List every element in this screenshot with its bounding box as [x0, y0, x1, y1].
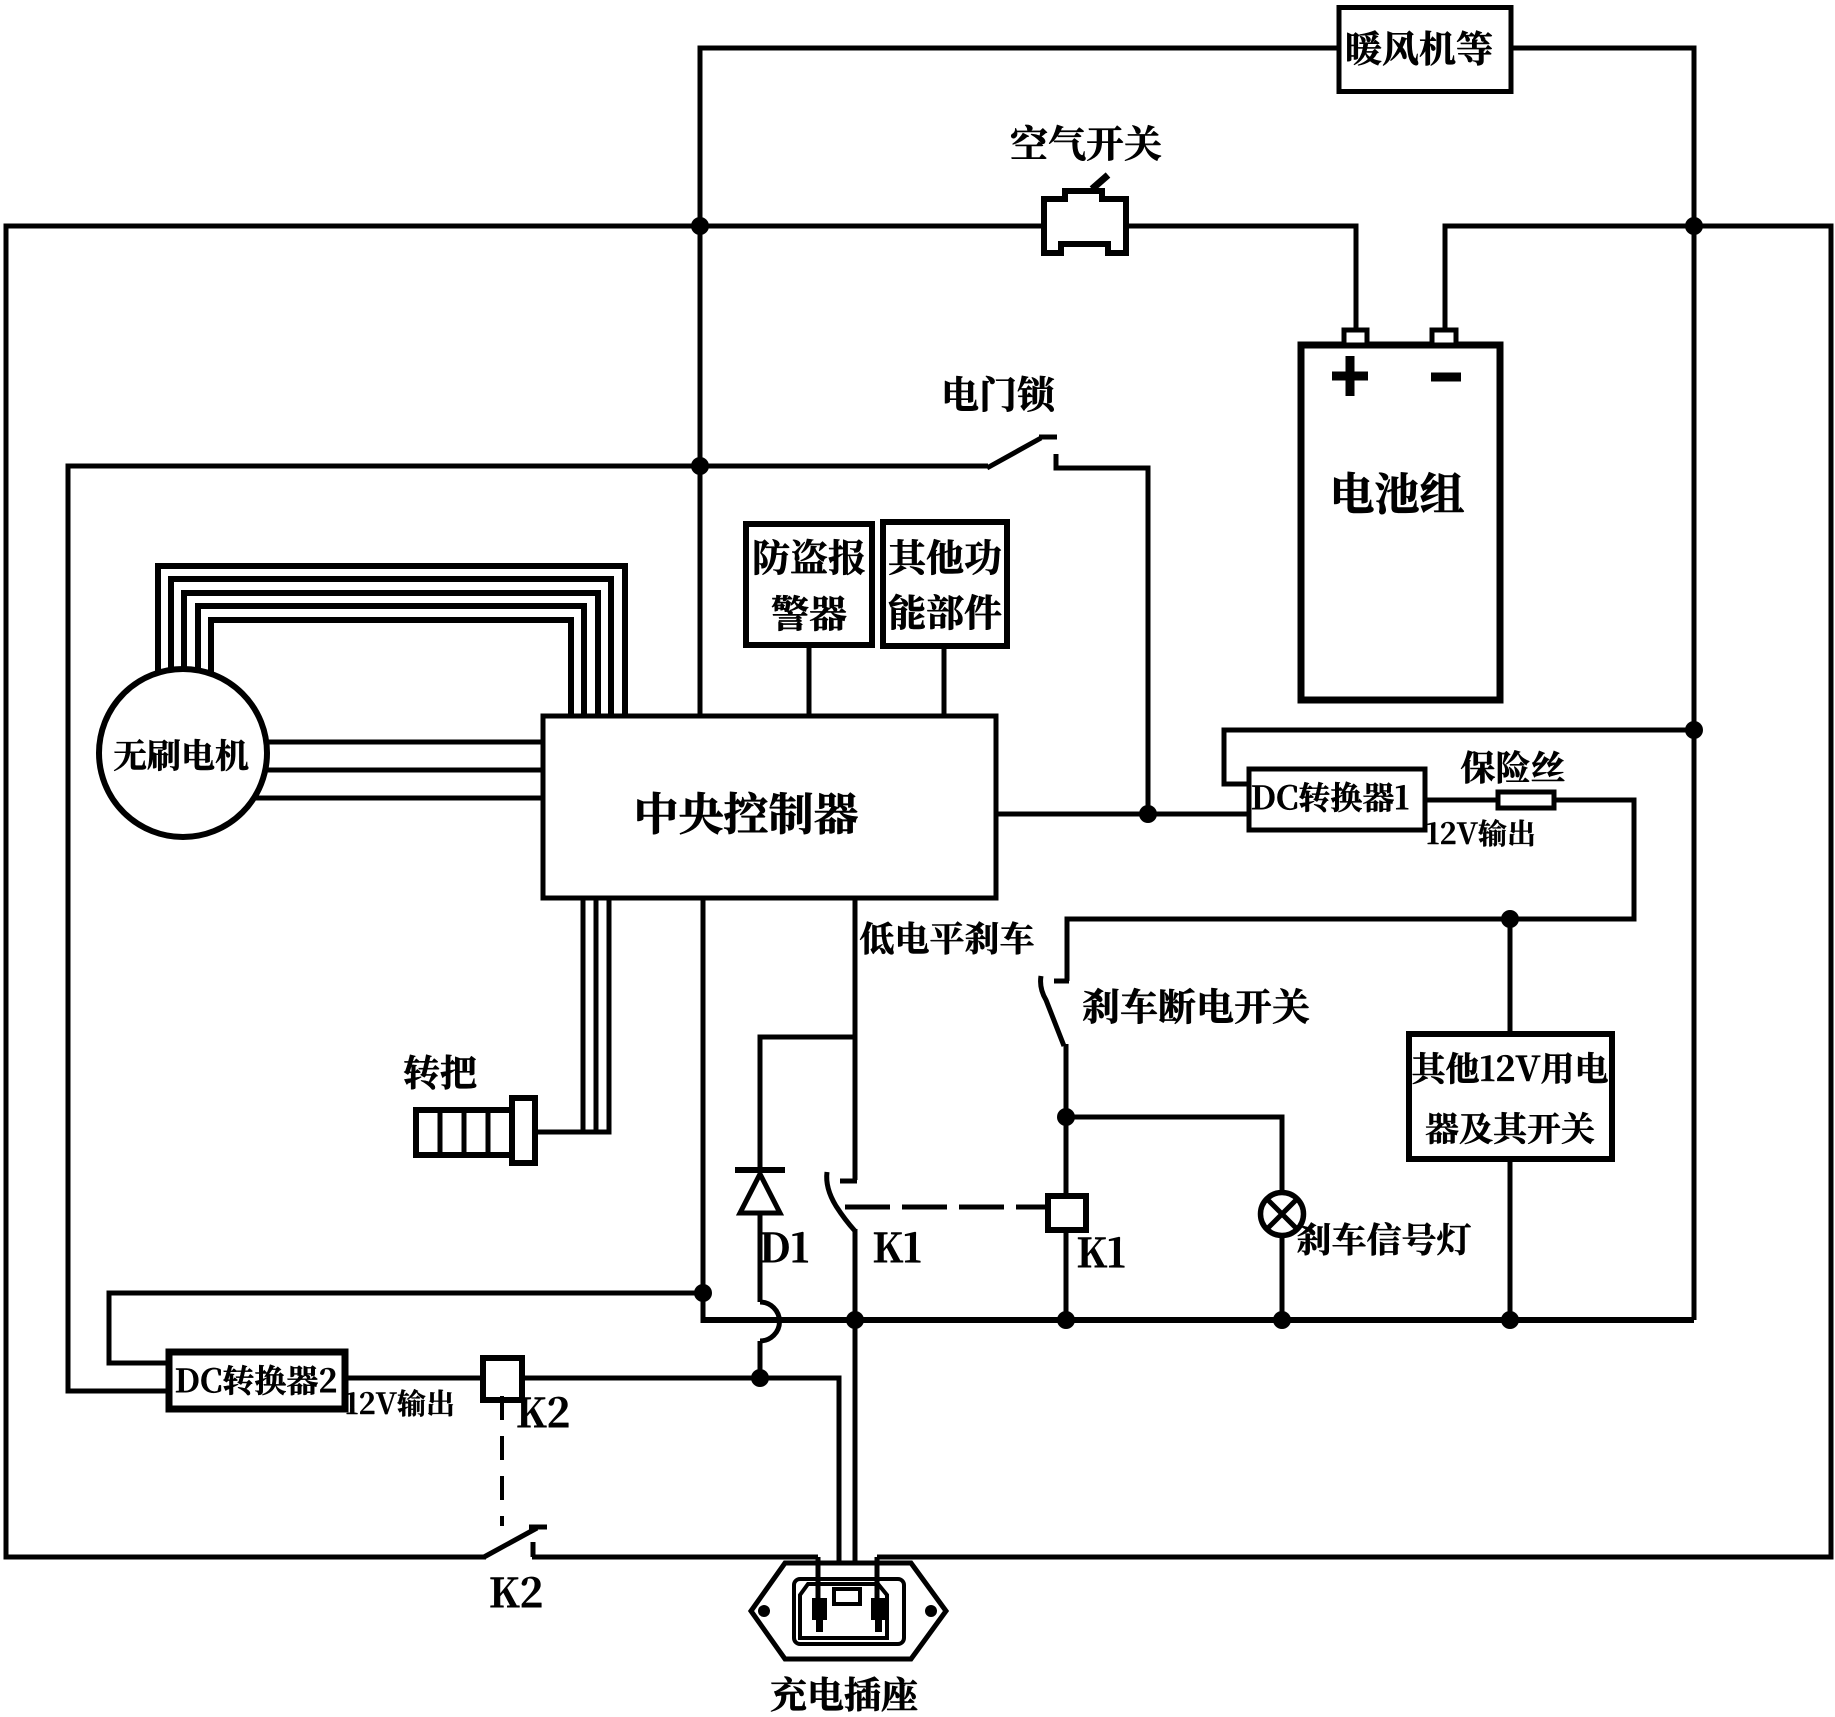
switch K1 fixed contact tick [840, 1179, 857, 1184]
wire D1 node to socket drop [760, 1376, 842, 1381]
wire vertical right bus x=1694 [1692, 46, 1697, 1321]
wire lamp branch horizontal y=1117 [1066, 1115, 1285, 1120]
node junction x=855 y=1320 [846, 1311, 864, 1329]
component throttle 转把 [416, 1110, 512, 1155]
air switch breaker symbol [1044, 191, 1126, 253]
battery plus sign [1332, 372, 1368, 381]
switch K1 blade [827, 1172, 855, 1231]
wire lock rail y=466 [68, 464, 988, 469]
battery plus terminal [1344, 330, 1367, 345]
wire K1 coil to line A [1064, 1230, 1069, 1320]
node junction x=703 y=1293 [694, 1284, 712, 1302]
node junction x=1066 y=1117 [1057, 1108, 1075, 1126]
wire motor 3 phase leads [205, 740, 545, 745]
node junction x=1148 y=814 [1139, 805, 1157, 823]
wire other-12V box to line A [1508, 1159, 1513, 1320]
switch K1 wire from controller [853, 898, 858, 1180]
wire alarm box to controller [807, 645, 812, 716]
label 电门锁 (key lock switch) [945, 376, 1054, 412]
component anti-theft alarm box 防盗报警器 [746, 524, 872, 645]
wire hop over line A [760, 1302, 780, 1341]
component box heater 暖风机等 [1339, 8, 1511, 92]
wire lock switch output x=1148 down to controller output line [1146, 466, 1151, 815]
label 充电插座 [771, 1677, 917, 1712]
wire bottom bus line A y=1320 [701, 1317, 1695, 1323]
wire K1 line to socket [853, 1320, 858, 1597]
wire K2 coil to D1 node [521, 1376, 760, 1381]
wire outer right border x=1831 [1829, 224, 1834, 1560]
component DC converter 1 box DC转换器1 [1249, 769, 1425, 830]
component other function parts box 其他功能部件 [883, 522, 1007, 646]
label 空气开关 (air switch) [1011, 125, 1161, 161]
node junction x=1510 y=919 [1501, 910, 1519, 928]
wire main positive rail y=226 left segment [4, 224, 1048, 229]
component brake signal lamp 刹车信号灯 [1261, 1193, 1304, 1236]
label 12V输出 right [1428, 819, 1534, 847]
wire bottom border y=1557 K2-to-socket [532, 1555, 818, 1560]
switch brake cutoff fixed contact [1065, 917, 1070, 982]
component DC converter 2 box DC转换器2 [169, 1352, 345, 1409]
wire controller output y=816 [996, 812, 1249, 817]
wire vertical x=68 (lock rail to DC converter 2) [66, 464, 71, 1392]
component other 12V devices box 其他12V用电器及其开关 [1409, 1034, 1612, 1159]
wire bottom border y=1557 left of K2 switch [4, 1555, 487, 1560]
wire K1 blade to line A [853, 1229, 858, 1320]
node junction x=1694 y=226 [1685, 217, 1703, 235]
wire motor hall/phase bundle (5 loops) [155, 566, 161, 700]
wire dashed link K2 coil to K2 switch [500, 1396, 504, 1526]
component brushless motor circle 无刷电机 [99, 669, 267, 837]
wire vertical bus x=700 (from top rail to controller) [698, 46, 703, 719]
wire main positive rail y=226 middle segment [1123, 224, 1356, 229]
wire function box to controller [942, 646, 947, 716]
node junction x=1066 y=1320 [1057, 1311, 1075, 1329]
switch 电门锁 blade and contacts [987, 438, 1041, 468]
node junction x=700 y=466 [691, 457, 709, 475]
component fuse symbol [1498, 792, 1554, 808]
node junction x=1510 y=1320 [1501, 1311, 1519, 1329]
switch brake cutoff blade [1041, 976, 1064, 1046]
battery minus terminal [1432, 330, 1456, 345]
node junction x=700 y=226 [691, 217, 709, 235]
component relay coil K1 [1048, 1196, 1086, 1230]
label 刹车断电开关 [1083, 988, 1309, 1024]
wire D1 below hop [758, 1341, 763, 1378]
label 12V输出 left [347, 1389, 453, 1417]
wire top rail y=48 (heater branch, left segment) [700, 46, 1339, 51]
wire dashed link K1 switch to K1 coil [845, 1205, 1048, 1210]
socket center pin [834, 1589, 860, 1604]
socket left pin [812, 1598, 827, 1620]
wire lamp to line A [1280, 1235, 1285, 1320]
wire brake switch to lamp tee [1064, 1044, 1069, 1196]
wire main negative rail y=226 right segment [1445, 224, 1831, 229]
component central controller box 中央控制器 [543, 716, 996, 898]
wire D1 to hop [758, 1213, 763, 1302]
wire DC2 output to K2 coil [345, 1376, 483, 1381]
node junction x=760 y=1378 [751, 1369, 769, 1387]
wire DC1 to fuse [1425, 798, 1498, 803]
wire battery plus lead x=1356 [1354, 224, 1359, 333]
wire throttle leads [581, 898, 586, 1132]
wire top bus y=730 to DC converter 1 [1224, 728, 1697, 733]
wire D1 branch top [760, 1035, 857, 1040]
switch K2 blade and contacts [484, 1528, 537, 1557]
component battery box 电池组 [1301, 345, 1500, 700]
wire mid-left rail y=1293 [109, 1291, 703, 1296]
wire battery minus lead x=1445 [1443, 224, 1448, 333]
node junction x=1694 y=730 [1685, 721, 1703, 739]
component charging socket 充电插座 body [751, 1563, 946, 1659]
socket right pin [871, 1598, 886, 1620]
battery minus sign [1431, 373, 1461, 382]
component relay coil K2 [483, 1358, 522, 1400]
wire bottom border y=1557 right of socket [877, 1555, 1834, 1560]
diode D1 symbol [735, 1167, 785, 1173]
wire fuse output to 12V rail [1554, 798, 1634, 803]
label 低电平刹车 [860, 921, 1034, 954]
wire outer left border x=6 [4, 224, 9, 1560]
wire 12V rail to other-12V box [1508, 919, 1513, 1034]
label 电池组 [1334, 472, 1464, 514]
label 保险丝 (fuse) [1461, 750, 1564, 783]
wire vertical x=703 below controller [701, 898, 706, 1323]
wire top rail y=48 (heater branch, right segment) [1511, 46, 1694, 51]
node junction x=1282 y=1320 [1273, 1311, 1291, 1329]
